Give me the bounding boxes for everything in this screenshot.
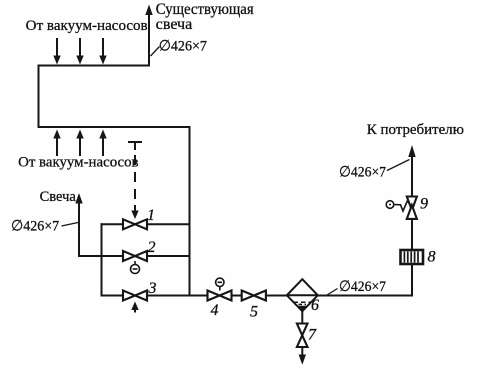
- leader line consumer label: [387, 160, 410, 171]
- svg-text:свеча: свеча: [156, 16, 193, 33]
- arrow into valve 3: [131, 302, 138, 313]
- leader line left stack label: [62, 223, 79, 227]
- svg-text:От вакуум-насосов: От вакуум-насосов: [18, 154, 139, 170]
- wire branch 2: [102, 255, 190, 257]
- wire left manifold vertical: [101, 224, 103, 295]
- svg-text:4: 4: [211, 302, 219, 319]
- valve 4: [208, 291, 232, 301]
- arrow inlet 1 bottom header: [53, 130, 60, 157]
- flow device 8: [401, 250, 424, 264]
- separator 6: [287, 279, 318, 311]
- svg-text:К потребителю: К потребителю: [367, 122, 464, 138]
- svg-text:∅426×7: ∅426×7: [339, 279, 386, 295]
- valve 5: [242, 291, 266, 301]
- node capped tee on bypass: [128, 142, 142, 150]
- leader line top stack label: [151, 47, 160, 57]
- leader line mid pipe label: [327, 289, 338, 296]
- svg-text:1: 1: [147, 207, 155, 224]
- wire main line: [102, 295, 413, 297]
- arrow existing stack up: [145, 5, 152, 16]
- svg-text:9: 9: [420, 196, 428, 213]
- arrow inlet 2 bottom header: [76, 130, 83, 157]
- wire dashed bypass line: [134, 155, 136, 205]
- wire stack (Svecha) riser: [78, 201, 80, 256]
- arrow inlet 3 top: [99, 38, 106, 65]
- valve 7: [297, 324, 308, 348]
- valve 3: [123, 291, 147, 301]
- wire second header: [39, 126, 190, 128]
- valve 1: [123, 219, 147, 229]
- arrow stack (Svecha) up: [75, 193, 82, 204]
- actuator of valve 9: [386, 201, 411, 212]
- svg-text:6: 6: [311, 297, 319, 314]
- svg-text:∅426×7: ∅426×7: [159, 39, 208, 55]
- svg-text:∅426×7: ∅426×7: [11, 219, 60, 235]
- valve 2: [123, 251, 147, 261]
- svg-text:7: 7: [308, 327, 317, 344]
- actuator of valve 4: [216, 278, 224, 290]
- valve 9: [407, 197, 417, 219]
- wire top header: [39, 65, 150, 67]
- actuator of valve 2: [131, 261, 140, 274]
- arrow separator drain down: [299, 355, 306, 365]
- wire stack riser horizontal: [79, 255, 102, 257]
- arrow inlet 1 top: [53, 38, 60, 65]
- arrow inlet 3 bottom header: [99, 130, 106, 157]
- wire consumer riser: [411, 156, 413, 296]
- svg-text:∅426×7: ∅426×7: [339, 165, 386, 181]
- wire left downcomer: [38, 66, 40, 128]
- svg-text:От вакуум-насосов: От вакуум-насосов: [26, 18, 148, 34]
- wire existing stack riser: [148, 13, 150, 66]
- arrow into valve 1: [131, 205, 138, 219]
- svg-text:5: 5: [250, 304, 258, 321]
- wire branch 1: [102, 223, 190, 225]
- svg-text:3: 3: [148, 280, 157, 297]
- svg-text:2: 2: [148, 239, 156, 256]
- wire right manifold vertical: [189, 127, 191, 296]
- arrow inlet 2 top: [76, 38, 83, 65]
- arrow to consumer up: [408, 145, 415, 157]
- svg-text:Свеча: Свеча: [40, 189, 77, 205]
- wire separator drain: [301, 311, 303, 356]
- svg-text:8: 8: [428, 249, 436, 266]
